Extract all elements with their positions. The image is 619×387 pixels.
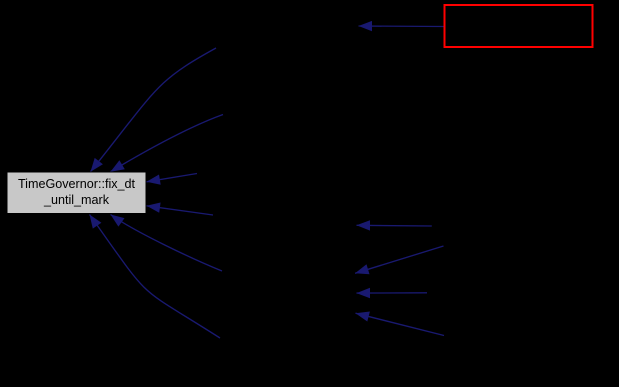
- edge E3: middle node 3 &#8594; fix_dt_until_mark (right upper): [147, 174, 198, 185]
- svg-text:TimeGovernor::fix_dt: TimeGovernor::fix_dt: [18, 177, 136, 191]
- svg-text:_until_mark: _until_mark: [43, 193, 110, 207]
- edge M2: right node &#8594; middle node (horizontal y=225): [357, 220, 432, 230]
- node: truncated caller (red-bordered box, top right): [445, 5, 593, 47]
- edge E6: middle node 5 &#8594; fix_dt_until_mark (bottom): [111, 215, 223, 272]
- edge E4: middle node 4 &#8594; fix_dt_until_mark (right lower): [147, 203, 214, 216]
- edge E5: middle node 6 &#8594; fix_dt_until_mark (bottom arc): [90, 215, 221, 339]
- edge E2: middle node 2 &#8594; fix_dt_until_mark (top): [111, 115, 224, 172]
- edge M1: red box &#8594; top-middle invisible node: [359, 21, 444, 31]
- edge M3: right node &#8594; middle node (diagonal down): [355, 246, 443, 274]
- node: TimeGovernor::fix_dt_until_mark (gray current node): [7, 172, 146, 214]
- edge M4: right node &#8594; middle node (horizontal y=293): [357, 288, 428, 298]
- edge M5: right node &#8594; middle node (diagonal up): [356, 312, 445, 336]
- edge E1: top-middle node &#8594; fix_dt_until_mark (top-left): [91, 48, 217, 172]
